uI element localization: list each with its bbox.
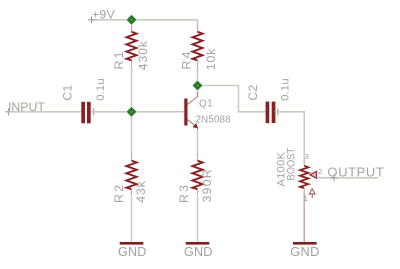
wire: R1 bottom to base junction — [131, 67, 133, 112]
resistor R1 zigzag — [127, 32, 137, 61]
node: collector junction — [192, 80, 204, 92]
svg-text:GND: GND — [290, 244, 319, 259]
wire: R4 top vertical from rail — [197, 20, 199, 26]
transistor Q1 emitter arrowhead — [193, 123, 198, 128]
svg-text:R4: R4 — [180, 49, 194, 69]
svg-text:C1: C1 — [61, 84, 75, 101]
ground GND (R2) — [120, 242, 144, 245]
svg-text:3: 3 — [305, 152, 309, 161]
node: rail junction — [126, 14, 138, 26]
wire: collector node to C2 (up-over) — [198, 86, 266, 112]
svg-text:390R: 390R — [200, 168, 214, 202]
svg-text:R1: R1 — [112, 49, 126, 69]
potentiometer wiper arrow — [310, 171, 317, 178]
wire: R3 to GND — [197, 197, 199, 243]
svg-text:2N5088: 2N5088 — [196, 115, 231, 126]
resistor R1 lead bottom — [131, 60, 133, 67]
wire: emitter down to R3 — [197, 130, 199, 156]
wire: C2 to potentiometer — [275, 112, 304, 161]
resistor R4 lead bottom — [197, 60, 199, 67]
svg-text:GND: GND — [184, 245, 213, 259]
potentiometer R5 zigzag — [300, 166, 308, 188]
resistor R4 lead top — [197, 25, 199, 32]
svg-text:R2: R2 — [112, 183, 126, 203]
resistor R2 zigzag — [126, 161, 136, 190]
potentiometer adjust arrow — [309, 189, 315, 194]
transistor Q1 base lead — [176, 111, 184, 113]
resistor R2 lead bottom — [131, 189, 133, 196]
svg-text:R3: R3 — [177, 183, 191, 203]
wire: +9V rail horizontal — [92, 19, 198, 21]
wire: wiper to OUTPUT — [317, 177, 378, 179]
resistor R3 zigzag — [192, 161, 202, 190]
svg-text:GND: GND — [118, 245, 147, 259]
resistor R1 lead top — [131, 21, 133, 32]
transistor Q1 base bar — [184, 99, 187, 126]
capacitor C1 pin cross — [90, 108, 97, 115]
wire: C1 to Q1 base — [91, 111, 176, 113]
resistor R3 lead top — [197, 154, 199, 161]
svg-text:Q1: Q1 — [199, 99, 213, 110]
svg-text:43k: 43k — [134, 180, 148, 202]
wire: R4 bottom to collector node — [197, 67, 199, 93]
capacitor C2 plates — [266, 102, 270, 124]
ground GND (R3) — [186, 242, 210, 245]
port OUTPUT pin cross — [331, 174, 338, 181]
potentiometer R5 lead bottom — [303, 188, 305, 194]
svg-text:430k: 430k — [136, 40, 150, 70]
svg-text:C2: C2 — [246, 84, 260, 101]
wire: pot pin1 to GND — [303, 194, 305, 243]
capacitor C2 pin cross — [274, 108, 281, 115]
svg-text:0.1u: 0.1u — [279, 78, 291, 101]
port INPUT pin cross — [5, 108, 12, 115]
node: base junction — [126, 106, 138, 118]
svg-text:BOOST: BOOST — [286, 148, 298, 181]
resistor R2 lead top — [131, 154, 133, 161]
svg-text:0.1u: 0.1u — [95, 78, 107, 101]
resistor R3 lead bottom — [197, 189, 199, 196]
supply +9V pin cross — [88, 16, 95, 23]
transistor Q1 collector line — [188, 93, 198, 105]
ground GND (pot) — [293, 242, 317, 245]
svg-text:10k: 10k — [204, 48, 218, 70]
potentiometer R5 lead top — [303, 160, 305, 166]
capacitor C1 plates — [81, 102, 85, 124]
wire: INPUT to C1 — [9, 111, 82, 113]
wire: R2 to GND — [131, 197, 133, 243]
svg-text:+9V: +9V — [92, 7, 116, 21]
resistor R4 zigzag — [193, 32, 203, 61]
svg-text:2: 2 — [318, 167, 322, 176]
svg-text:OUTPUT: OUTPUT — [327, 164, 384, 179]
transistor Q1 emitter line — [188, 120, 198, 132]
wire: base junction down to R2 — [131, 112, 133, 156]
